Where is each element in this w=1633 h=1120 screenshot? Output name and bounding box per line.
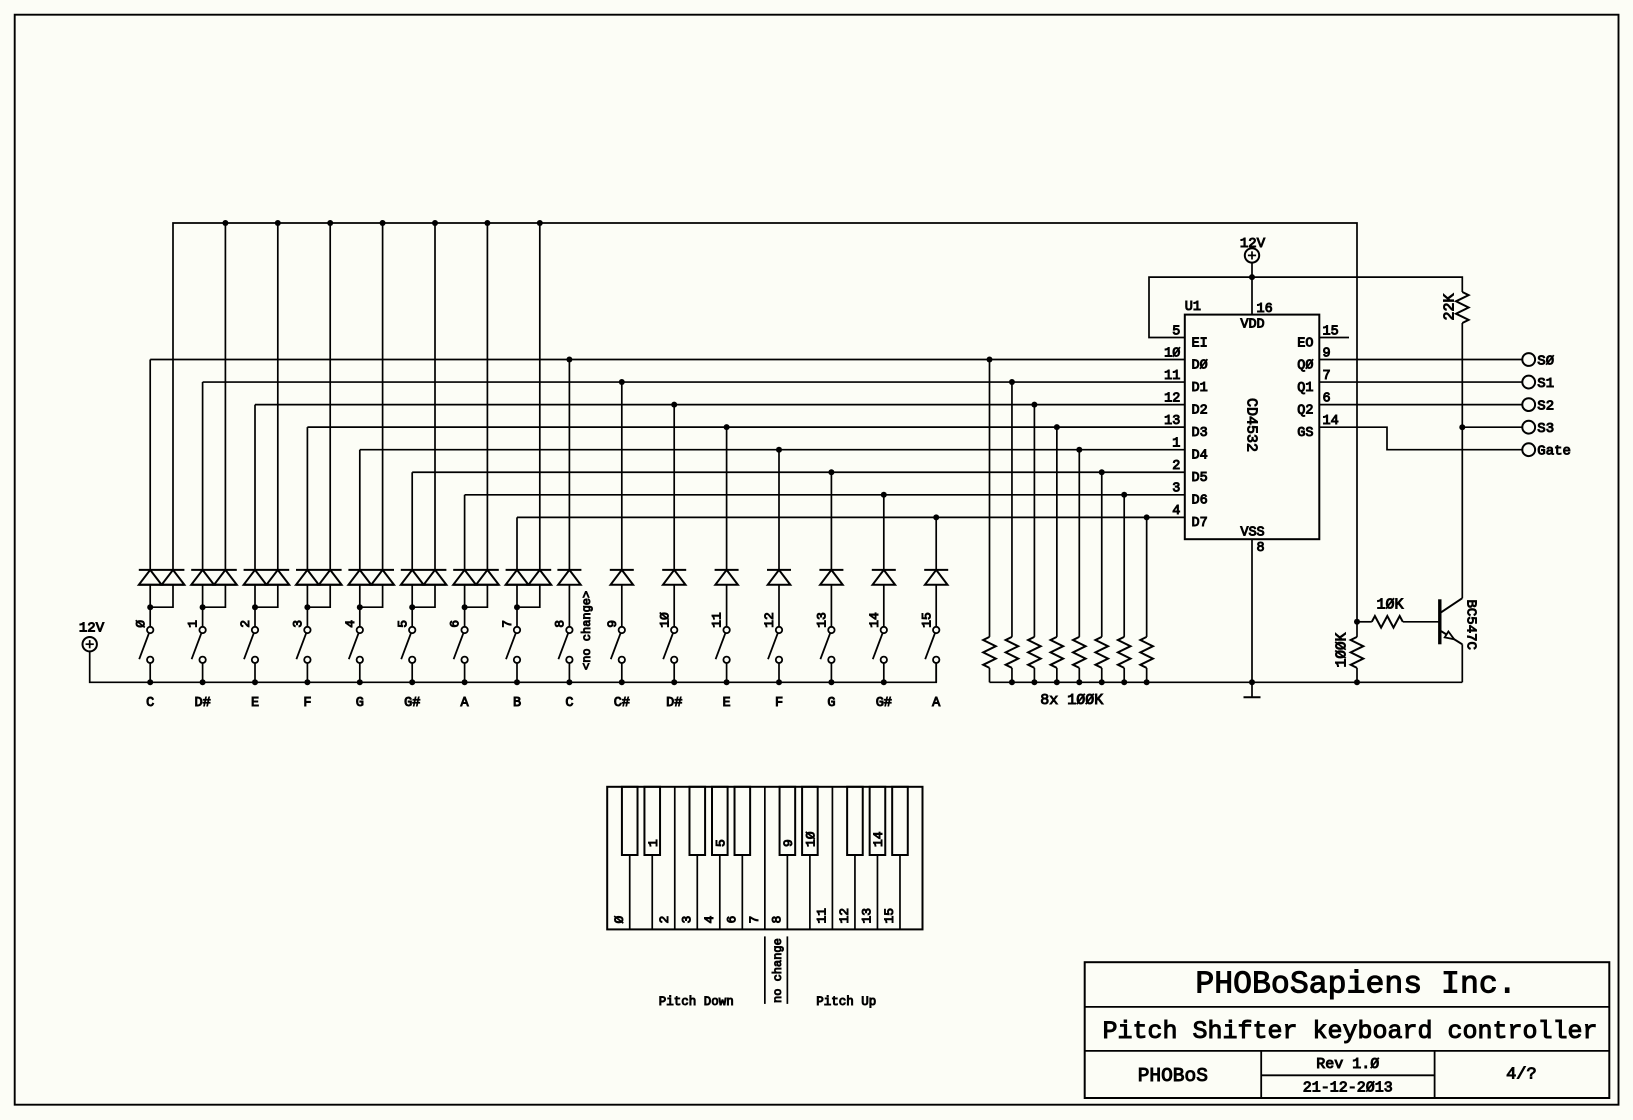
keyboard diagram outline: [607, 787, 922, 930]
pin 9 Q0 of U1: [1297, 346, 1330, 373]
wire switch 5 to common rail: [409, 663, 415, 685]
svg-text:S1: S1: [1537, 376, 1554, 392]
svg-text:C: C: [146, 696, 154, 711]
pin 8 VSS wire to ground: [1249, 539, 1265, 685]
svg-text:D3: D3: [1192, 426, 1208, 441]
black key at boundary 9: [802, 787, 818, 855]
diode D5B (switch 5 to gate bus): [412, 570, 446, 607]
pin 2 D5 of U1: [1172, 459, 1208, 486]
node D1 bus: [203, 379, 1185, 385]
wire switch 8 to common rail: [566, 663, 572, 685]
svg-text:VSS: VSS: [1240, 526, 1264, 541]
diode D6B (switch 6 to gate bus): [465, 570, 499, 607]
svg-text:B: B: [513, 696, 521, 711]
wire switch 4 to common rail: [357, 663, 363, 685]
svg-text:9: 9: [781, 839, 796, 847]
diode D1B (switch 1 to gate bus): [203, 570, 237, 607]
svg-text:E: E: [723, 696, 731, 711]
node D5 bus: [412, 469, 1185, 475]
svg-text:EI: EI: [1192, 336, 1208, 351]
wire switch 1 to common rail: [200, 663, 206, 685]
resistor 100K (base pulldown): [1334, 622, 1363, 686]
svg-text:11: 11: [814, 908, 829, 924]
svg-text:<no change>: <no change>: [580, 591, 594, 670]
wire S3 from collector node: [1462, 426, 1522, 428]
svg-text:QØ: QØ: [1297, 358, 1313, 373]
svg-text:14: 14: [871, 831, 886, 847]
svg-text:Ø: Ø: [133, 620, 148, 628]
node D4 bus: [360, 447, 1185, 453]
wire switch 11 to common rail: [724, 663, 730, 685]
wire gate bus to diode D5B: [432, 220, 438, 570]
diode D7A (switch 7 to D7 bus): [506, 517, 552, 607]
svg-text:PHOBoS: PHOBoS: [1138, 1065, 1208, 1087]
svg-text:D#: D#: [666, 696, 682, 711]
diode D9A (switch 9 to D1 bus): [610, 382, 634, 626]
node anode junction switch 1: [200, 604, 206, 626]
pin 7 Q1 of U1: [1297, 369, 1330, 396]
terminal Gate: [1522, 443, 1571, 459]
svg-text:1ØK: 1ØK: [1376, 597, 1403, 614]
switch 14 (key G#): [867, 612, 887, 663]
svg-text:7: 7: [747, 916, 762, 924]
switch 4 (key G): [343, 620, 363, 663]
wire Q to terminal S1: [1319, 381, 1522, 383]
white key divider below black key 9: [809, 855, 811, 929]
white key divider below black key 1: [629, 855, 631, 929]
pin 5 EI of U1: [1172, 324, 1208, 351]
wire 12V source to key common rail: [90, 651, 937, 682]
black key at boundary 12: [870, 787, 886, 855]
svg-text:15: 15: [882, 908, 897, 924]
svg-text:S2: S2: [1537, 398, 1554, 414]
wire switch 13 to common rail: [828, 663, 834, 685]
svg-text:Ø: Ø: [612, 916, 627, 924]
svg-text:C#: C#: [614, 696, 630, 711]
svg-text:D2: D2: [1192, 403, 1208, 418]
wire switch 2 to common rail: [252, 663, 258, 685]
switch 0 (key C): [133, 620, 153, 663]
svg-text:1: 1: [646, 839, 661, 847]
wire GS (pin 14) to Gate terminal: [1319, 427, 1522, 450]
black key at boundary 1: [622, 787, 638, 855]
svg-text:Pitch Up: Pitch Up: [816, 995, 876, 1009]
wire switch 14 to common rail: [881, 663, 887, 685]
node D7 bus: [517, 514, 1185, 520]
svg-text:12: 12: [837, 908, 852, 924]
switch 8 (key C): [553, 620, 573, 663]
op-amp U1 CD4532 priority encoder: [1185, 300, 1320, 541]
node base divider junction: [1354, 619, 1360, 625]
svg-text:SØ: SØ: [1537, 353, 1554, 369]
svg-text:D1: D1: [1192, 381, 1208, 396]
node D0 bus: [150, 357, 1185, 363]
svg-text:8: 8: [553, 620, 568, 628]
pin 15 EO of U1: [1297, 324, 1338, 351]
node anode junction switch 4: [357, 604, 363, 626]
wire switch 7 to common rail: [514, 663, 520, 685]
switch 11 (key E): [710, 612, 730, 663]
terminal S1: [1522, 376, 1554, 392]
svg-text:A: A: [932, 696, 941, 711]
no change marker lines: [765, 936, 788, 1004]
white key divider 3: [674, 787, 676, 930]
switch 2 (key E): [238, 620, 258, 663]
white key divider below black key 11: [854, 855, 856, 929]
node anode junction switch 6: [462, 604, 468, 626]
wire switch 9 to common rail: [619, 663, 625, 685]
switch 1 (key D#): [186, 620, 206, 663]
pin 13 D3 of U1: [1164, 414, 1208, 441]
node anode junction switch 7: [514, 604, 520, 626]
diode D5A (switch 5 to D5 bus): [401, 472, 447, 607]
terminal S3: [1522, 421, 1554, 437]
svg-text:G#: G#: [876, 696, 892, 711]
wire gate bus to diode D2B: [275, 220, 281, 570]
resistor R5 100K pulldown on D4: [1073, 450, 1086, 686]
svg-text:GS: GS: [1297, 426, 1313, 441]
svg-text:Q1: Q1: [1297, 381, 1313, 396]
svg-text:8: 8: [1257, 541, 1265, 556]
wire Q to terminal S2: [1319, 404, 1522, 406]
white key divider below black key 12: [876, 855, 878, 929]
svg-text:11: 11: [1164, 369, 1180, 384]
svg-text:S3: S3: [1537, 421, 1554, 437]
svg-text:16: 16: [1257, 302, 1273, 317]
terminal S2: [1522, 398, 1554, 414]
resistor R7 100K pulldown on D6: [1118, 495, 1131, 686]
svg-text:no change: no change: [771, 938, 785, 1003]
diode D4A (switch 4 to D4 bus): [348, 450, 394, 608]
svg-text:Q2: Q2: [1297, 403, 1313, 418]
pin 6 Q2 of U1: [1297, 391, 1330, 418]
power source 12V (left): [79, 621, 105, 652]
diode D1A (switch 1 to D1 bus): [191, 382, 237, 607]
svg-text:1ØØK: 1ØØK: [1334, 632, 1350, 667]
svg-text:12V: 12V: [1240, 236, 1266, 252]
switch 5 (key G#): [395, 620, 415, 663]
svg-text:1: 1: [186, 620, 201, 628]
diode D15A (switch 15 to D7 bus): [924, 517, 948, 626]
svg-text:2: 2: [657, 916, 672, 924]
svg-text:D5: D5: [1192, 471, 1208, 486]
svg-text:12V: 12V: [79, 621, 105, 637]
pin 4 D7 of U1: [1172, 504, 1208, 531]
svg-text:3: 3: [291, 620, 306, 628]
black key at boundary 2: [644, 787, 660, 855]
svg-text:Pitch Down: Pitch Down: [659, 995, 734, 1009]
node anode junction switch 3: [304, 604, 310, 626]
wire switch 10 to common rail: [671, 663, 677, 685]
diode D8A (switch 8 to D0 bus): [557, 360, 581, 627]
wire gate bus to diode D3B: [327, 220, 333, 570]
resistor R4 100K pulldown on D3: [1051, 427, 1064, 685]
diode D0A (switch 0 to D0 bus): [139, 360, 185, 608]
svg-text:F: F: [303, 696, 311, 711]
svg-text:Gate: Gate: [1537, 444, 1571, 460]
svg-text:4: 4: [1172, 504, 1180, 519]
diode D13A (switch 13 to D5 bus): [819, 472, 843, 626]
ground: [1244, 682, 1261, 697]
switch 6 (key A): [448, 620, 468, 663]
svg-text:13: 13: [1164, 414, 1180, 429]
pin 1 D4 of U1: [1172, 437, 1208, 464]
diode D6A (switch 6 to D6 bus): [453, 495, 499, 607]
svg-text:21-12-2Ø13: 21-12-2Ø13: [1303, 1080, 1393, 1097]
wire gate bus to diode D6B: [484, 220, 490, 570]
wire EO stub (pin 15): [1319, 337, 1349, 339]
transistor Q1 BC547C: [1440, 598, 1479, 650]
svg-text:D6: D6: [1192, 494, 1208, 509]
svg-text:Rev 1.Ø: Rev 1.Ø: [1316, 1056, 1379, 1073]
svg-text:D7: D7: [1192, 516, 1208, 531]
black key at boundary 8: [780, 787, 796, 855]
node D3 bus: [307, 424, 1184, 430]
svg-text:3: 3: [1172, 482, 1180, 497]
svg-text:1: 1: [1172, 437, 1180, 452]
black key at boundary 6: [735, 787, 751, 855]
pin 3 D6 of U1: [1172, 482, 1208, 509]
svg-text:G#: G#: [404, 696, 420, 711]
switch 13 (key G): [815, 612, 835, 663]
switch 7 (key B): [500, 620, 520, 663]
svg-text:12: 12: [1164, 391, 1180, 406]
diode D0B (switch 0 to gate bus): [150, 570, 184, 607]
wire gate bus to diode D4B: [380, 220, 386, 570]
pin 10 D0 of U1: [1164, 346, 1208, 373]
svg-text:6: 6: [724, 916, 739, 924]
svg-text:4: 4: [702, 916, 717, 924]
svg-text:8: 8: [769, 916, 784, 924]
svg-text:9: 9: [605, 620, 620, 628]
pin 12 D2 of U1: [1164, 391, 1208, 418]
diode D3A (switch 3 to D3 bus): [296, 427, 342, 607]
diode D12A (switch 12 to D4 bus): [767, 450, 791, 627]
svg-text:22K: 22K: [1442, 293, 1459, 320]
wire switch 12 to common rail: [776, 663, 782, 685]
white key divider below black key 6: [741, 855, 743, 929]
pin 14 GS of U1: [1297, 414, 1338, 441]
svg-text:8x 1ØØK: 8x 1ØØK: [1040, 692, 1103, 709]
svg-text:BC547C: BC547C: [1463, 600, 1479, 650]
svg-text:EO: EO: [1297, 336, 1313, 351]
svg-text:12: 12: [762, 612, 777, 628]
pin 16 VDD wire: [1252, 263, 1273, 317]
svg-text:VDD: VDD: [1240, 318, 1264, 333]
resistor R1 100K pulldown on D0: [983, 360, 996, 683]
resistor 10K (base series): [1357, 597, 1440, 628]
resistor R6 100K pulldown on D5: [1095, 472, 1108, 685]
svg-text:4/?: 4/?: [1506, 1066, 1537, 1085]
svg-text:G: G: [356, 696, 364, 711]
black key at boundary 13: [892, 787, 908, 855]
svg-text:5: 5: [713, 839, 728, 847]
wire switch 3 to common rail: [304, 663, 310, 685]
resistor R8 100K pulldown on D7: [1140, 517, 1153, 685]
node S3 / collector junction: [1459, 424, 1465, 430]
black key at boundary 5: [712, 787, 728, 855]
node ground rail: [990, 681, 1463, 683]
power source 12V (top): [1240, 236, 1266, 263]
white key divider below black key 8: [786, 855, 788, 929]
svg-text:13: 13: [815, 612, 830, 628]
diode D2A (switch 2 to D2 bus): [244, 405, 290, 608]
svg-text:1Ø: 1Ø: [1164, 346, 1180, 361]
node VDD junction: [1249, 274, 1255, 280]
node anode junction switch 0: [147, 604, 153, 626]
switch 10 (key D#): [657, 612, 677, 663]
black key at boundary 4: [689, 787, 705, 855]
white key divider below black key 13: [899, 855, 901, 929]
white key divider below black key 4: [696, 855, 698, 929]
wire switch 6 to common rail: [462, 663, 468, 685]
svg-text:3: 3: [679, 916, 694, 924]
node D6 bus: [465, 492, 1185, 498]
wire gate bus to diode D1B: [222, 220, 228, 570]
switch 3 (key F): [291, 620, 311, 663]
switch 15 (key A): [919, 612, 939, 663]
svg-text:1Ø: 1Ø: [657, 612, 672, 628]
wire gate bus to diode D7B: [537, 220, 543, 570]
wire Q to terminal S0: [1319, 359, 1522, 361]
terminal S0: [1522, 353, 1554, 369]
diode D14A (switch 14 to D6 bus): [872, 495, 896, 627]
node D2 bus: [255, 402, 1185, 408]
resistor 22K pull-up: [1442, 292, 1469, 598]
svg-text:13: 13: [859, 908, 874, 924]
node gate bus (keys 0-7 common): [173, 223, 1357, 622]
node anode junction switch 5: [409, 604, 415, 626]
white key divider below black key 5: [719, 855, 721, 929]
svg-text:6: 6: [448, 620, 463, 628]
svg-text:C: C: [565, 696, 573, 711]
svg-text:G: G: [827, 696, 835, 711]
diode D7B (switch 7 to gate bus): [517, 570, 551, 607]
resistor R3 100K pulldown on D2: [1028, 405, 1041, 686]
svg-text:5: 5: [395, 620, 410, 628]
diode D11A (switch 11 to D3 bus): [715, 427, 739, 626]
node anode junction switch 2: [252, 604, 258, 626]
switch 12 (key F): [762, 612, 782, 663]
white key divider 7: [764, 787, 766, 930]
wire emitter to ground rail: [1461, 644, 1463, 682]
svg-text:D4: D4: [1192, 449, 1208, 464]
svg-text:4: 4: [343, 620, 358, 628]
svg-text:E: E: [251, 696, 259, 711]
svg-text:PHOBoSapiens Inc.: PHOBoSapiens Inc.: [1195, 968, 1516, 1003]
svg-text:DØ: DØ: [1192, 358, 1208, 373]
svg-text:A: A: [461, 696, 470, 711]
svg-text:Pitch Shifter keyboard control: Pitch Shifter keyboard controller: [1102, 1017, 1597, 1046]
resistor R2 100K pulldown on D1: [1006, 382, 1019, 685]
title block: [1085, 962, 1610, 1098]
wire EI to 12V and 22K (pin 5): [1149, 277, 1462, 337]
black key at boundary 11: [847, 787, 863, 855]
svg-text:F: F: [775, 696, 783, 711]
diode D2B (switch 2 to gate bus): [255, 570, 289, 607]
svg-text:11: 11: [710, 612, 725, 628]
svg-text:7: 7: [500, 620, 515, 628]
svg-text:CD4532: CD4532: [1243, 398, 1260, 452]
diode D3B (switch 3 to gate bus): [307, 570, 341, 607]
svg-text:14: 14: [867, 612, 882, 628]
svg-text:15: 15: [919, 612, 934, 628]
diode D4B (switch 4 to gate bus): [360, 570, 394, 607]
white key divider below black key 2: [651, 855, 653, 929]
wire switch 0 to common rail: [147, 663, 153, 685]
svg-text:2: 2: [1172, 459, 1180, 474]
svg-text:1Ø: 1Ø: [803, 831, 818, 847]
svg-text:D#: D#: [194, 696, 210, 711]
svg-text:2: 2: [238, 620, 253, 628]
svg-text:U1: U1: [1185, 300, 1201, 315]
wire switch 15 to common rail: [935, 663, 937, 682]
switch 9 (key C#): [605, 620, 625, 663]
white key divider 10: [831, 787, 833, 930]
diode D10A (switch 10 to D2 bus): [662, 405, 686, 627]
pin 11 D1 of U1: [1164, 369, 1208, 396]
